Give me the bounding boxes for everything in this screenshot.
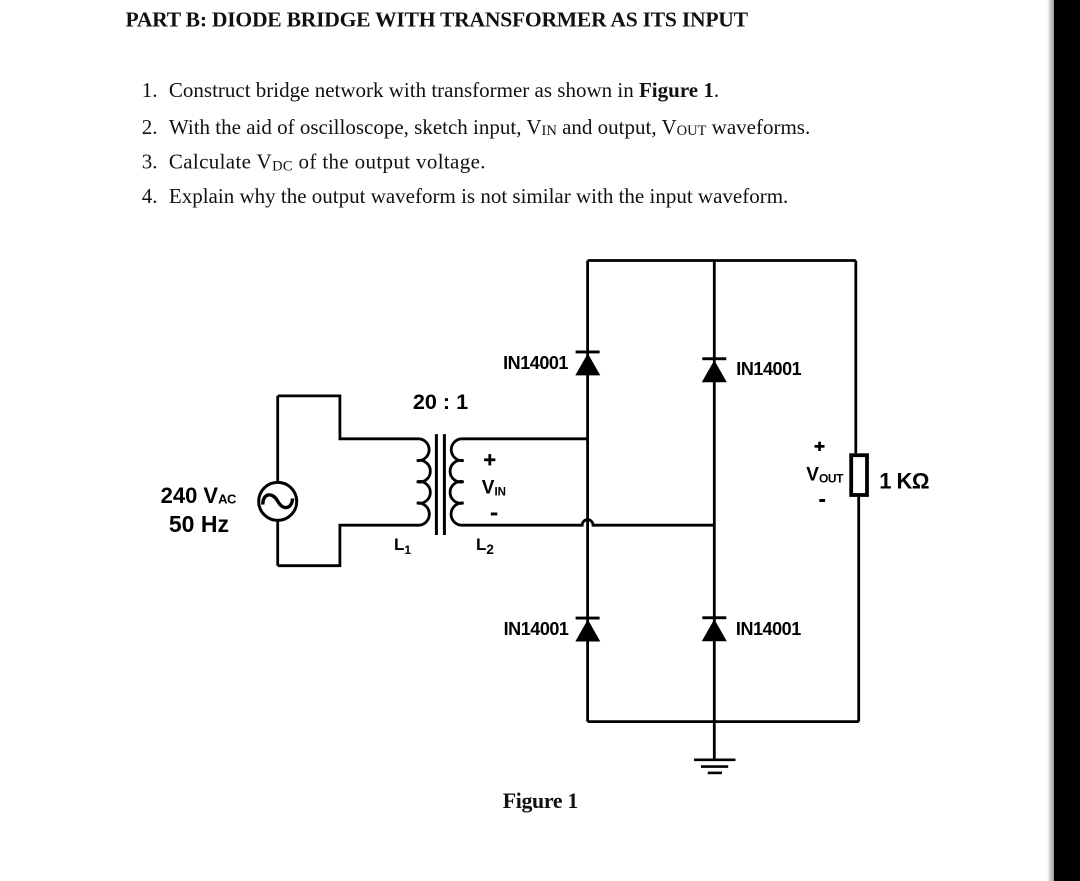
svg-text:Calculate VDC of the output vo: Calculate VDC of the output voltage.: [169, 150, 486, 175]
svg-text:IN14001: IN14001: [736, 619, 801, 639]
svg-text:Figure 1: Figure 1: [503, 789, 578, 813]
svg-text:Explain why the output wavefor: Explain why the output waveform is not s…: [169, 184, 788, 208]
svg-text:Construct bridge network with: Construct bridge network with transforme…: [169, 78, 719, 102]
svg-text:1 KΩ: 1 KΩ: [879, 468, 929, 493]
svg-text:50 Hz: 50 Hz: [169, 511, 229, 537]
svg-text:PART B: DIODE BRIDGE WITH TRAN: PART B: DIODE BRIDGE WITH TRANSFORMER AS…: [126, 8, 749, 32]
svg-text:IN14001: IN14001: [736, 359, 801, 379]
svg-text:With the aid of oscilloscope,: With the aid of oscilloscope, sketch inp…: [169, 115, 810, 139]
svg-text:IN14001: IN14001: [504, 619, 569, 639]
svg-text:2.: 2.: [142, 115, 158, 139]
svg-text:1.: 1.: [142, 78, 158, 102]
svg-text:20 : 1: 20 : 1: [413, 389, 468, 414]
svg-text:3.: 3.: [142, 150, 158, 174]
svg-text:4.: 4.: [142, 184, 158, 208]
svg-text:IN14001: IN14001: [503, 353, 568, 373]
